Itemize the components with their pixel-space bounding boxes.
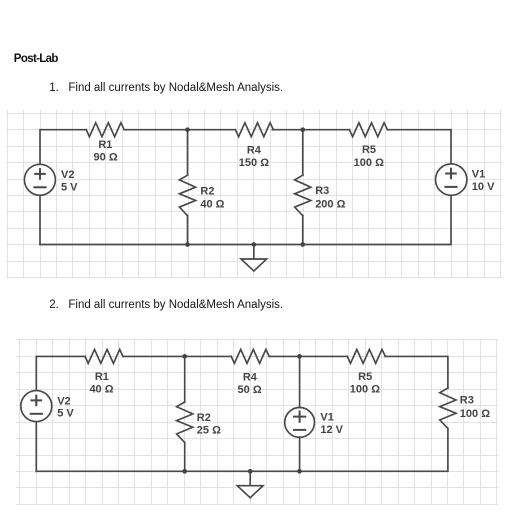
voltage source V1 <box>285 408 315 438</box>
resistor R4 <box>231 349 269 363</box>
grid circuit 2 <box>17 340 498 505</box>
wire top-left: V2 to R1 <box>40 130 86 164</box>
bottom junction dot ground <box>248 469 253 474</box>
svg-text:50 Ω: 50 Ω <box>238 384 262 396</box>
wire node A down to R2 <box>187 130 189 176</box>
bottom junction dot R2 <box>185 242 190 247</box>
svg-text:R4: R4 <box>243 372 258 384</box>
wire R3 to bottom-right corner <box>36 429 448 472</box>
resistor R3 <box>295 175 311 216</box>
wire R5 to top-right corner down to V1 <box>387 130 451 164</box>
resistor R2 <box>177 402 193 443</box>
svg-text:R2: R2 <box>200 186 214 198</box>
resistor R1 <box>86 123 124 137</box>
wire R3 to bottom <box>302 216 304 245</box>
wire R2 to bottom <box>187 216 189 245</box>
wire node C down to R2 <box>184 356 186 402</box>
node B junction dot <box>300 127 305 132</box>
svg-text:100 Ω: 100 Ω <box>354 157 384 169</box>
bottom junction dot ground <box>252 242 257 247</box>
svg-text:R5: R5 <box>358 371 372 383</box>
svg-text:100 Ω: 100 Ω <box>460 408 490 420</box>
svg-text:200 Ω: 200 Ω <box>315 198 345 210</box>
wire V1 to bottom-right corner <box>40 195 451 244</box>
bottom junction dot V1 <box>297 469 302 474</box>
svg-text:V2: V2 <box>57 395 70 407</box>
svg-text:100 Ω: 100 Ω <box>350 384 380 396</box>
wire R5 to top-right corner down to R3 <box>385 356 448 388</box>
svg-text:40 Ω: 40 Ω <box>200 198 224 210</box>
svg-text:R1: R1 <box>95 371 109 383</box>
svg-text:10 V: 10 V <box>472 181 495 193</box>
wire bottom-left up to V2 <box>39 196 41 245</box>
wire R1 to R4 <box>124 129 235 131</box>
svg-text:V1: V1 <box>472 169 485 181</box>
ground circuit 2 <box>249 471 251 485</box>
node A junction dot <box>185 127 190 132</box>
svg-text:5 V: 5 V <box>57 408 74 420</box>
wire top-left: V2 to R1 <box>36 356 85 390</box>
node C junction dot <box>182 354 187 359</box>
bottom junction dot R2 <box>182 469 187 474</box>
resistor R3 <box>440 388 456 429</box>
voltage source V1 <box>436 164 467 195</box>
heading item 1 <box>49 82 283 94</box>
wire R2 to bottom <box>184 443 186 472</box>
wire node B down to R3 <box>302 130 304 176</box>
svg-text:R4: R4 <box>247 145 262 157</box>
heading Post-Lab <box>14 53 58 65</box>
svg-text:40 Ω: 40 Ω <box>89 384 113 396</box>
svg-text:V1: V1 <box>320 411 333 423</box>
resistor R4 <box>235 123 273 137</box>
voltage source V2 <box>24 164 55 195</box>
resistor R2 <box>179 175 195 216</box>
svg-text:R1: R1 <box>98 139 112 151</box>
svg-text:V2: V2 <box>61 169 74 181</box>
resistor R5 <box>349 123 387 137</box>
svg-text:5 V: 5 V <box>61 181 78 193</box>
bottom junction dot R3 <box>300 242 305 247</box>
wire bottom-left up to V2 <box>35 422 37 471</box>
node D junction dot <box>297 354 302 359</box>
svg-text:90 Ω: 90 Ω <box>94 152 118 164</box>
svg-text:R3: R3 <box>460 395 474 407</box>
grid circuit 1 <box>7 111 502 278</box>
svg-text:R2: R2 <box>197 412 211 424</box>
wire R1 to R4 <box>123 355 231 357</box>
ground circuit 1 <box>253 245 255 260</box>
wire R4 to R5 <box>269 355 347 357</box>
heading item 2 <box>49 299 283 311</box>
wire R4 to R5 <box>272 129 349 131</box>
resistor R1 <box>85 349 123 363</box>
svg-text:12 V: 12 V <box>320 424 343 436</box>
svg-text:150 Ω: 150 Ω <box>239 157 269 169</box>
svg-text:R3: R3 <box>315 185 329 197</box>
wire V1 to bottom <box>299 437 301 471</box>
svg-text:25 Ω: 25 Ω <box>197 424 221 436</box>
resistor R5 <box>347 349 385 363</box>
svg-text:R5: R5 <box>362 144 376 156</box>
voltage source V2 <box>21 391 52 422</box>
wire node D down to V1 <box>299 356 301 407</box>
